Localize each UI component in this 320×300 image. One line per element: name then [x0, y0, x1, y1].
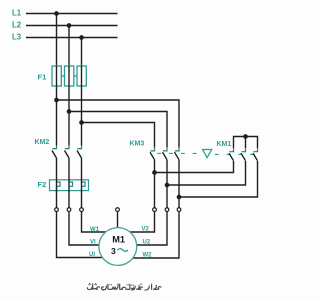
wire F2 pole 3 down: [81, 191, 83, 212]
fuse F1 pole 3 body: [77, 66, 86, 86]
wire V2 link to KM1 pole 1: [155, 161, 234, 173]
terminal circle U1 feed: [55, 208, 59, 212]
svg-text:V2: V2: [142, 227, 150, 233]
svg-text:L3: L3: [12, 32, 22, 41]
wire KM3 pole 2 down: [166, 160, 168, 212]
overload F2 element 2: [69, 182, 73, 186]
svg-text:F1: F1: [38, 73, 47, 82]
wire KM3 pole 1 down: [154, 160, 156, 212]
caption arabic text drawn as paths: [87, 283, 161, 290]
svg-text:U2: U2: [143, 240, 151, 246]
wire F2 pole 2 through: [68, 179, 70, 192]
wire branch phase 3 to KM3 pole 1: [82, 123, 155, 148]
wire to motor U1: [57, 211, 105, 257]
wire terminal to motor U2: [136, 211, 167, 245]
contactor KM2 pole 3 contact: [77, 145, 82, 158]
junction phase 1 branch: [54, 98, 59, 103]
wire L3 supply line: [26, 37, 118, 39]
wire phase 3 drop from L3 to F1: [81, 38, 83, 67]
contactor KM2 pole 2 contact: [65, 145, 70, 158]
fuse F1 pole 1 body: [52, 66, 61, 86]
wire L2 supply line: [26, 25, 118, 27]
overload F2 element 1: [57, 182, 61, 186]
terminal circle W1 feed: [80, 208, 84, 212]
junction phase 2 branch: [67, 109, 72, 114]
delta symbol triangle: [203, 150, 212, 158]
svg-text:L1: L1: [12, 8, 22, 17]
fuse F1 pole 2 body: [65, 66, 74, 86]
wire U2 link to KM1 pole 2: [167, 161, 246, 185]
wire phase 2 drop from L2 to F1: [68, 26, 70, 67]
wire to motor W1: [82, 211, 108, 232]
junction node V2: [152, 170, 157, 175]
wire motor top stub: [117, 211, 119, 229]
contactor KM3 pole 3 contact: [175, 148, 180, 160]
motor M1 body circle: [99, 228, 137, 266]
wire fuse pole 3 through: [81, 66, 83, 86]
junction node W2: [177, 195, 182, 200]
svg-text:KM2: KM2: [35, 139, 50, 146]
wire phase 2 fuse to KM2: [68, 86, 70, 146]
wire W2 link to KM1 pole 3: [179, 161, 258, 197]
wire phase 1 drop from L1 to F1: [56, 14, 58, 67]
junction star point: [243, 134, 248, 139]
wire KM2 pole 2 to F2: [68, 158, 70, 180]
fuse F1 link bar 2-3: [74, 75, 77, 77]
svg-text:L2: L2: [12, 20, 22, 29]
wire KM2 pole 1 to F2: [56, 158, 58, 180]
wire fuse pole 2 through: [68, 66, 70, 86]
wire F2 pole 2 down: [68, 191, 70, 212]
contactor KM3 pole 2 contact: [163, 148, 168, 160]
contactor KM3 pole 1 contact: [150, 148, 155, 160]
terminal circle U2: [165, 208, 169, 212]
wire branch phase 1 to KM3 pole 3: [57, 100, 180, 148]
junction phase 3 branch: [79, 120, 84, 125]
junction on L3: [79, 35, 84, 40]
svg-text:VI: VI: [90, 240, 96, 246]
motor earth terminal circle: [116, 208, 120, 212]
wire phase 3 fuse to KM2: [81, 86, 83, 146]
terminal circle V1 feed: [67, 208, 71, 212]
svg-text:M1: M1: [112, 235, 125, 245]
wire branch phase 2 to KM3 pole 2: [69, 112, 167, 148]
wire KM2 pole 3 to F2: [81, 158, 83, 180]
star bridge wire KM1: [234, 137, 258, 149]
svg-text:UI: UI: [89, 252, 95, 258]
fuse F1 link bar 1-2: [61, 75, 64, 77]
mechanical linkage dashed KM1 side: [215, 153, 255, 155]
overload relay F2 body: [50, 180, 89, 191]
svg-text:W1: W1: [90, 227, 100, 233]
wire phase 1 fuse to KM2: [56, 86, 58, 146]
wire F2 pole 1 through: [56, 179, 58, 192]
svg-text:KM1: KM1: [217, 141, 232, 148]
wire fuse pole 1 through: [56, 66, 58, 86]
wire L1 supply line: [26, 13, 118, 15]
motor tilde symbol: [118, 249, 129, 252]
contactor KM1 pole 1 contact: [229, 149, 234, 161]
wire F2 pole 3 through: [81, 179, 83, 192]
contactor KM2 pole 1 contact: [52, 145, 57, 158]
terminal circle W2: [177, 208, 181, 212]
wire KM3 pole 3 down: [178, 160, 180, 212]
wire terminal to motor V2: [129, 211, 155, 232]
overload F2 element 3: [82, 182, 86, 186]
svg-text:W2: W2: [143, 252, 153, 258]
wire to motor V1: [69, 211, 101, 245]
wire F2 pole 1 down: [56, 191, 58, 212]
svg-text:3: 3: [111, 246, 116, 256]
junction on L1: [54, 11, 59, 16]
svg-text:KM3: KM3: [130, 140, 145, 147]
mechanical linkage dashed KM3 side: [157, 152, 199, 154]
contactor KM1 pole 2 contact: [241, 149, 246, 161]
contactor KM1 pole 3 contact: [253, 149, 258, 161]
wire terminal to motor W2: [131, 211, 179, 258]
junction node U2: [165, 183, 170, 188]
junction on L2: [67, 23, 72, 28]
terminal circle V2: [153, 208, 157, 212]
svg-text:F2: F2: [38, 180, 47, 189]
